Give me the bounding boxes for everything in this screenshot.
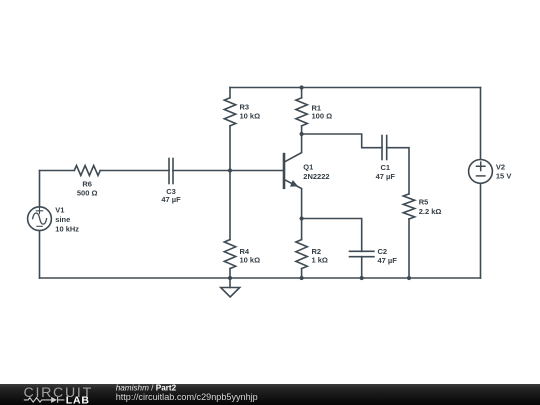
svg-text:hamishm / Part2: hamishm / Part2 xyxy=(116,383,177,392)
svg-text:2.2 kΩ: 2.2 kΩ xyxy=(419,207,442,216)
svg-text:10 kΩ: 10 kΩ xyxy=(240,112,261,121)
svg-text:10 kΩ: 10 kΩ xyxy=(240,256,261,265)
svg-text:R5: R5 xyxy=(419,197,429,206)
svg-text:15 V: 15 V xyxy=(496,171,511,180)
svg-text:R6: R6 xyxy=(82,180,92,189)
svg-text:V1: V1 xyxy=(55,206,64,215)
svg-text:Q1: Q1 xyxy=(303,163,313,172)
svg-text:100 Ω: 100 Ω xyxy=(312,112,333,121)
svg-text:47 µF: 47 µF xyxy=(376,172,396,181)
svg-text:1 kΩ: 1 kΩ xyxy=(312,256,328,265)
svg-text:500 Ω: 500 Ω xyxy=(77,189,98,198)
svg-text:10 kHz: 10 kHz xyxy=(55,225,79,234)
svg-text:R3: R3 xyxy=(240,102,250,111)
svg-text:47 µF: 47 µF xyxy=(161,195,181,204)
svg-text:2N2222: 2N2222 xyxy=(303,172,329,181)
svg-text:C2: C2 xyxy=(378,247,388,256)
svg-text:http://circuitlab.com/c29npb5y: http://circuitlab.com/c29npb5yynhjp xyxy=(116,392,258,402)
svg-text:V2: V2 xyxy=(496,163,505,172)
svg-text:LAB: LAB xyxy=(66,394,90,405)
svg-text:sine: sine xyxy=(55,215,70,224)
svg-text:47 µF: 47 µF xyxy=(378,256,398,265)
